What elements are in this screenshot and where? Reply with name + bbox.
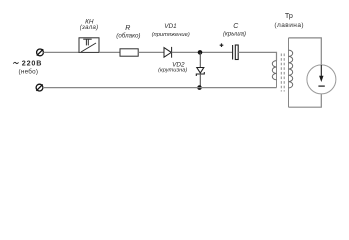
zener diode VD2 — [196, 52, 204, 87]
svg-text:220В: 220В — [22, 59, 42, 68]
wire resistor to diode VD1 — [138, 51, 164, 53]
arrester arrow — [318, 65, 324, 86]
wire top rail: terminal to KN box — [43, 51, 79, 53]
label C (krysha) — [223, 23, 246, 38]
label Tp (lavina) — [274, 11, 304, 29]
arrester device circle — [307, 65, 336, 94]
wire KN to resistor — [99, 51, 120, 53]
svg-text:(небо): (небо) — [19, 67, 39, 75]
terminal X2 (bottom input) — [36, 84, 43, 91]
bottom rail wire — [43, 87, 277, 89]
node junction bottom — [197, 85, 202, 90]
svg-text:(зала): (зала) — [80, 25, 99, 31]
svg-text:(крутизна): (крутизна) — [158, 68, 187, 74]
node junction top (VD2 tap) — [198, 50, 203, 55]
label VD1 (prityazhenie) — [152, 23, 190, 38]
diode VD1 — [164, 47, 172, 58]
wire VD1 to capacitor — [172, 51, 233, 53]
capacitor C — [233, 45, 239, 60]
svg-text:Тр: Тр — [285, 11, 293, 20]
transformer core (dashed lines) — [281, 54, 284, 92]
transformer Tp primary winding — [272, 61, 276, 88]
resistor R — [120, 49, 138, 56]
capacitor C plus sign — [220, 43, 224, 47]
terminal X1 (top input) — [37, 49, 44, 56]
push-button KN box — [79, 38, 99, 53]
svg-text:(крыша): (крыша) — [223, 31, 246, 37]
svg-text:VD1: VD1 — [164, 23, 177, 30]
transformer Tp secondary winding — [289, 38, 293, 107]
wire secondary loop bottom — [289, 94, 322, 107]
svg-text:(лавина): (лавина) — [274, 22, 304, 29]
label ~220V source — [13, 59, 42, 76]
svg-text:(облако): (облако) — [116, 33, 140, 40]
svg-text:R: R — [125, 25, 130, 32]
label VD2 (krutizna) — [158, 62, 187, 74]
label KN (zala) — [80, 19, 99, 32]
wire secondary loop top — [289, 38, 322, 65]
svg-text:(притяжение): (притяжение) — [152, 32, 190, 38]
label R (oblako) — [116, 25, 140, 39]
wire capacitor to transformer primary (with corner) — [238, 52, 276, 60]
